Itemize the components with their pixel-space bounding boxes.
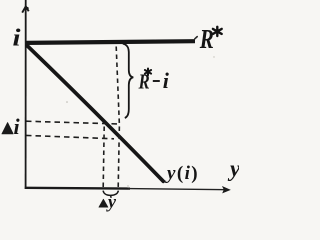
small pen tick at right end of R* line bbox=[195, 37, 197, 39]
dashed vertical line at y+Δy (right, from R* line to x-axis) bbox=[116, 47, 119, 188]
svg-text:i: i bbox=[13, 24, 22, 51]
x-axis (horizontal axis line, thicker at origin) bbox=[25, 187, 130, 190]
svg-text:i: i bbox=[14, 114, 21, 139]
dashed horizontal line at i (upper, to point A) bbox=[26, 121, 120, 124]
label Δi bbox=[2, 114, 21, 139]
svg-text:i: i bbox=[163, 68, 170, 93]
R* horizontal thick line bbox=[26, 41, 195, 43]
x-axis (horizontal axis line, thinner right part) bbox=[128, 189, 227, 190]
svg-text:y: y bbox=[106, 191, 117, 211]
underbrace for Δy below x-axis bbox=[103, 191, 118, 198]
label Δy below underbrace bbox=[99, 191, 117, 211]
faint paper specks bbox=[66, 101, 68, 103]
y(i) diagonal line bbox=[27, 46, 163, 182]
dashed horizontal line at i-Δi (lower, to point B) bbox=[26, 135, 114, 138]
y-axis (vertical axis line) bbox=[25, 0, 27, 189]
svg-text:y(i): y(i) bbox=[165, 163, 199, 184]
curly brace for R*-i bbox=[123, 44, 134, 118]
dashed vertical line at y (left, point A to x-axis) bbox=[103, 127, 104, 188]
y-axis arrowhead barbs bbox=[22, 6, 29, 12]
x-axis arrowhead bbox=[223, 187, 230, 193]
asterisk of R* bbox=[213, 27, 222, 36]
svg-text:R: R bbox=[199, 24, 214, 54]
paper background bbox=[0, 0, 239, 212]
asterisk of R*-i bbox=[145, 69, 151, 76]
y-axis arrowhead ink blob bbox=[26, 7, 29, 10]
minus of R*-i bbox=[153, 80, 160, 82]
